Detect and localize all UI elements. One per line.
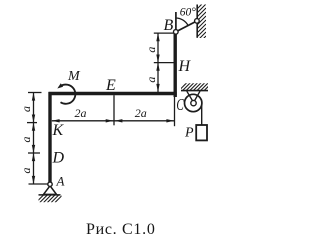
pulley hub [191, 100, 196, 105]
ground line at A [39, 194, 61, 196]
svg-text:B: B [164, 17, 174, 34]
svg-text:P: P [184, 126, 194, 141]
svg-text:A: A [56, 174, 65, 189]
svg-text:a: a [19, 168, 33, 174]
arrows left column [32, 93, 35, 185]
svg-text:D: D [52, 150, 65, 167]
dimension line right column (a,a) [154, 33, 175, 92]
angle reference stub above B [175, 12, 177, 31]
svg-text:a: a [144, 77, 158, 83]
wall hatching top right [195, 0, 206, 47]
pulley bracket [187, 91, 200, 102]
ceiling hatching above pulley [179, 83, 212, 91]
svg-text:a: a [19, 106, 33, 112]
svg-text:a: a [19, 137, 33, 143]
svg-text:2a: 2a [75, 106, 87, 120]
dimension line left column (a,a,a) [27, 93, 48, 185]
moment M arrowhead [57, 83, 63, 88]
arrows right column [156, 33, 159, 92]
rope to weight P [201, 103, 203, 126]
mid tick below E [113, 95, 115, 125]
svg-text:C: C [176, 96, 184, 115]
svg-text:E: E [105, 77, 116, 94]
svg-text:H: H [178, 58, 192, 75]
pin circle B [174, 30, 179, 35]
ceiling line [181, 90, 208, 92]
right vertical bar (B to C) [173, 31, 176, 98]
wall line [196, 5, 198, 38]
weight P [196, 125, 207, 140]
rod B to wall [177, 21, 197, 32]
svg-text:Рис. С1.0: Рис. С1.0 [86, 221, 156, 238]
horizontal bar (through E to C) [49, 92, 177, 95]
svg-text:2a: 2a [135, 106, 147, 120]
svg-text:60°: 60° [180, 7, 197, 19]
60 degree angle arc at B [176, 18, 188, 26]
pin support A triangle [44, 186, 57, 195]
ground hatching at A [36, 195, 63, 203]
arrows 2a line [52, 119, 174, 122]
moment M arc [59, 85, 75, 104]
svg-text:K: K [52, 122, 65, 139]
pulley at C [185, 94, 202, 111]
svg-text:a: a [144, 47, 158, 53]
pin circle A [48, 182, 52, 186]
dimension line 2a,2a below bar E [52, 120, 174, 122]
left vertical bar (corner to A) [48, 92, 51, 183]
extension line below C [174, 97, 176, 126]
svg-text:M: M [67, 69, 81, 84]
pin circle at wall anchor [195, 19, 200, 24]
